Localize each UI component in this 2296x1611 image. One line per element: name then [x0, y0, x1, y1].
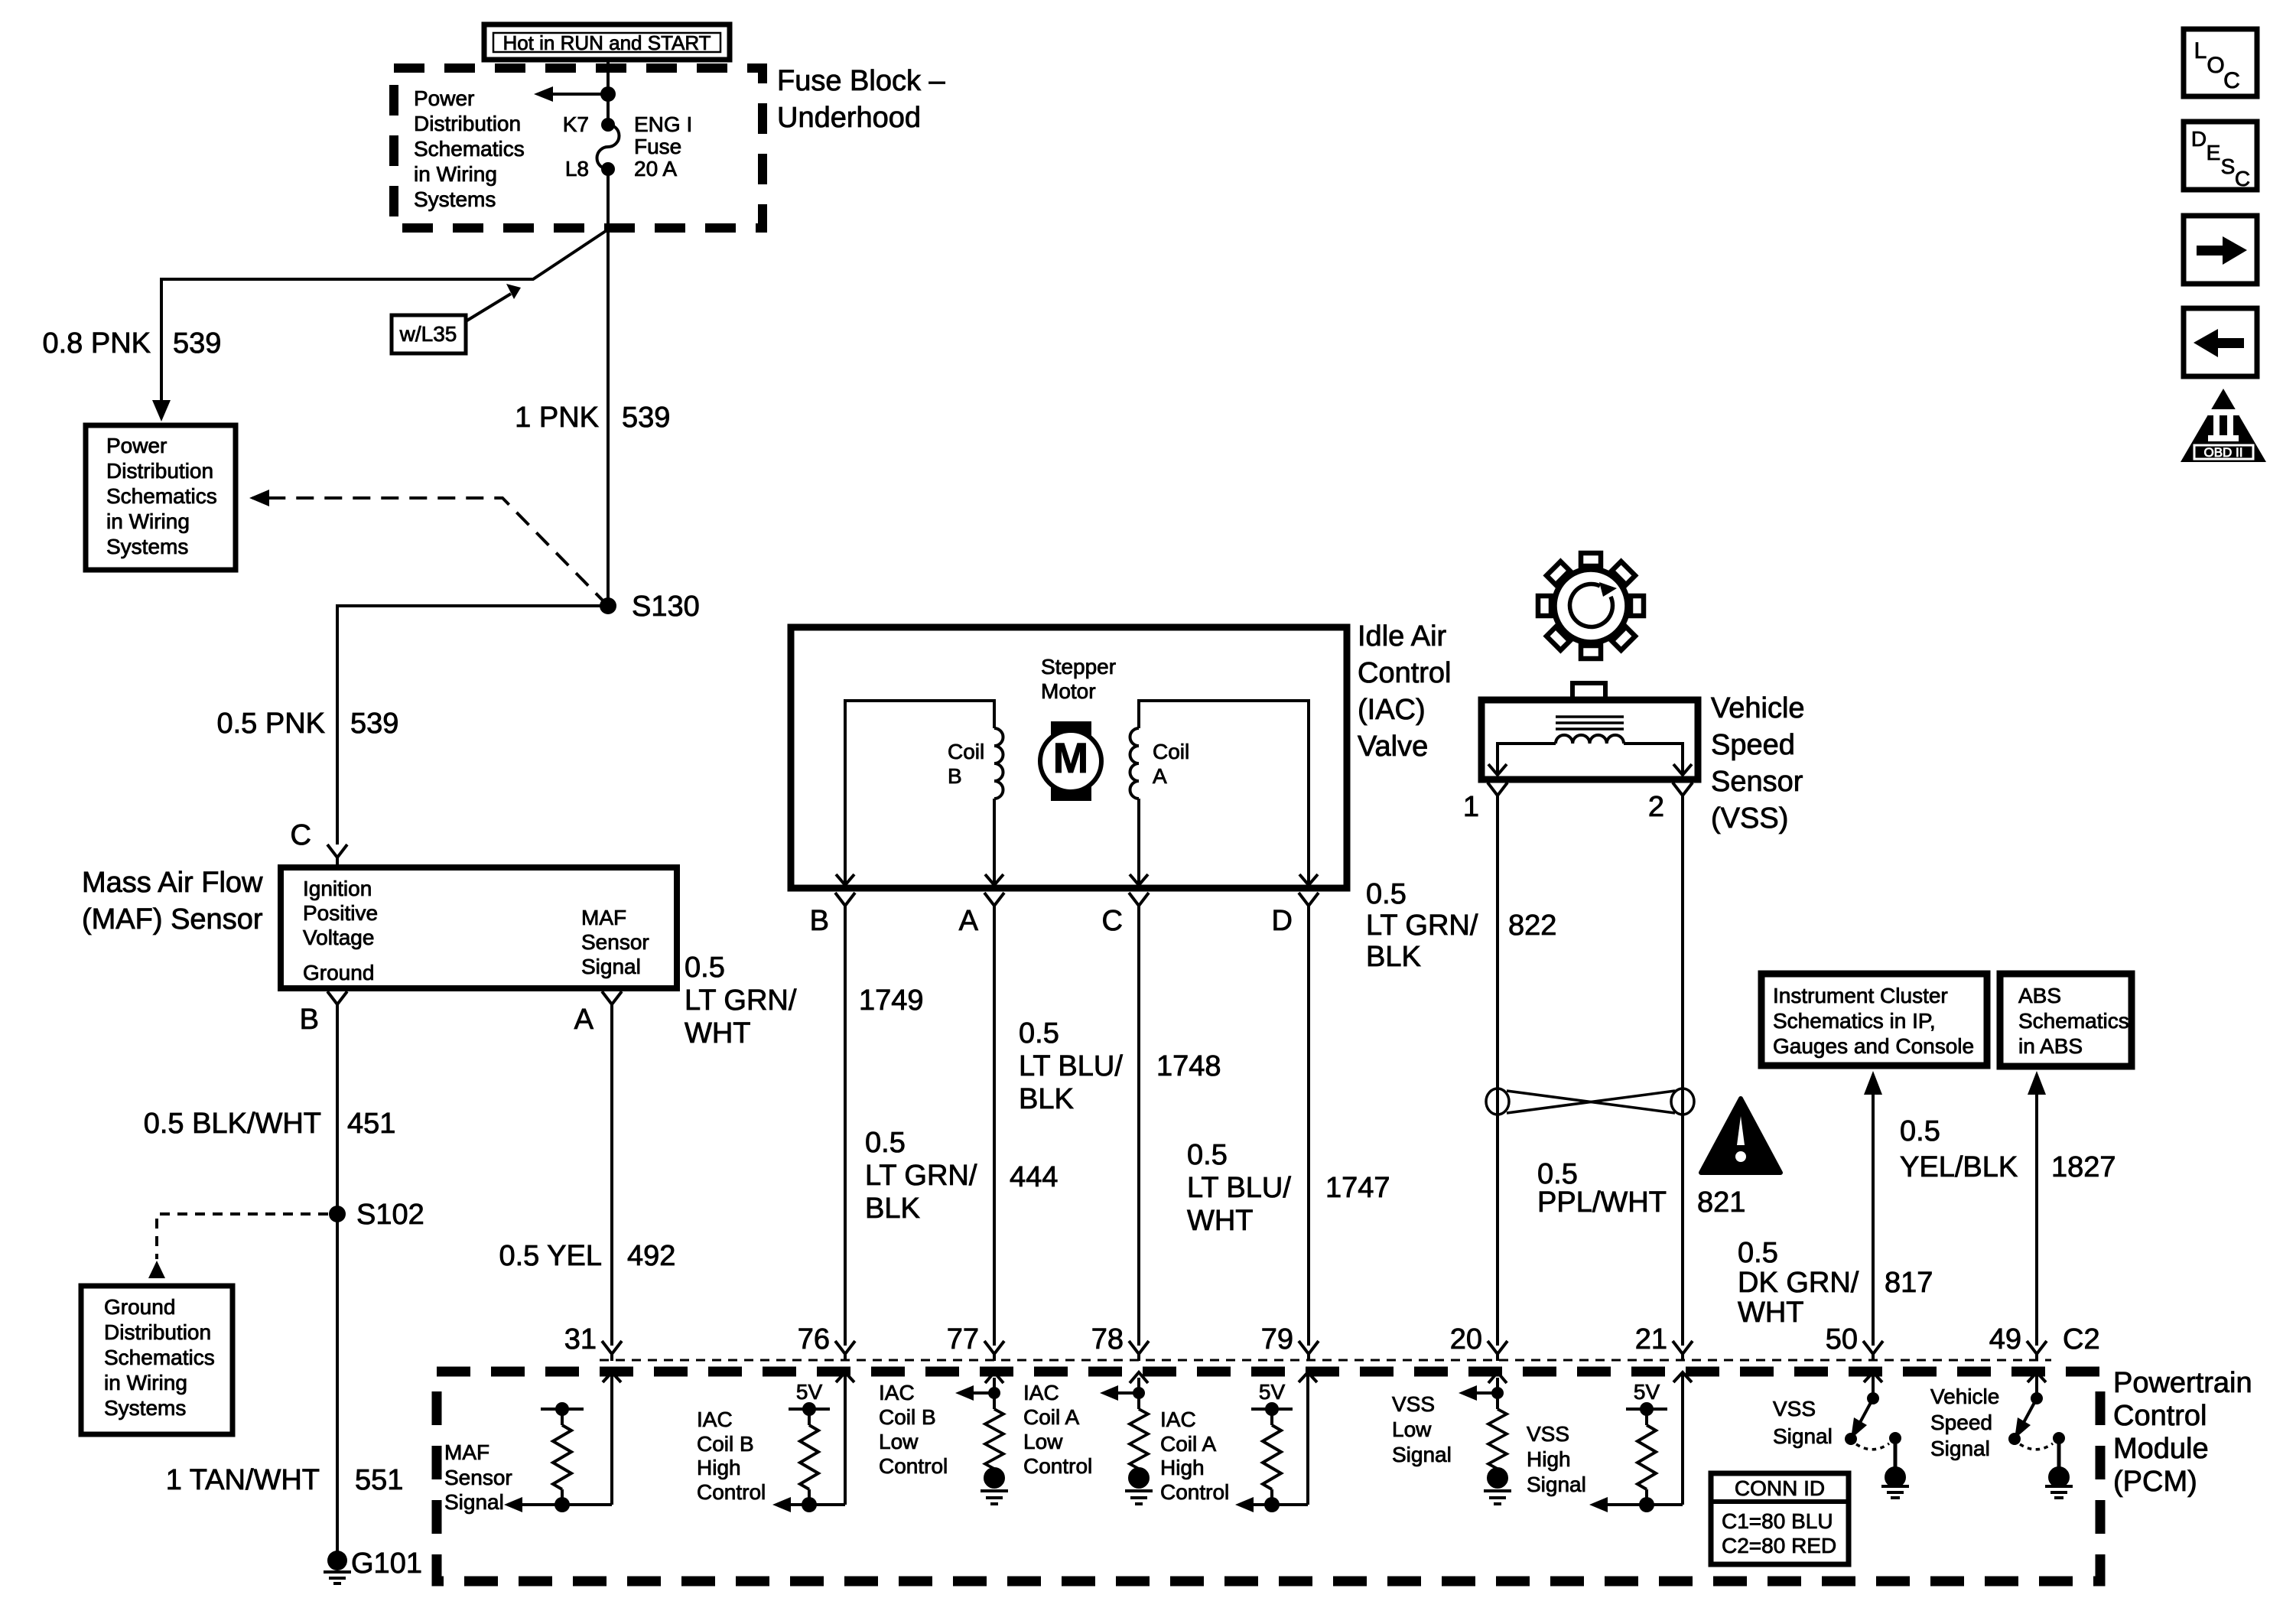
- PCM pin 50 internal: VSS signal switch: [1845, 1372, 1909, 1498]
- svg-text:Coil: Coil: [948, 740, 984, 763]
- svg-text:Coil B: Coil B: [697, 1432, 754, 1456]
- svg-text:76: 76: [798, 1323, 830, 1356]
- svg-text:C: C: [2223, 68, 2240, 93]
- icon: LOC box: [2184, 29, 2257, 96]
- svg-text:Sensor: Sensor: [581, 930, 649, 954]
- svg-text:0.5: 0.5: [685, 952, 725, 984]
- svg-text:1747: 1747: [1325, 1172, 1390, 1204]
- svg-text:IAC: IAC: [697, 1408, 733, 1431]
- svg-text:0.5 BLK/WHT: 0.5 BLK/WHT: [144, 1108, 321, 1140]
- label: VSS Low Signal: [1392, 1392, 1452, 1466]
- svg-text:High: High: [697, 1456, 741, 1479]
- PCM connector pin 78: [1091, 1323, 1149, 1361]
- svg-text:551: 551: [355, 1464, 403, 1496]
- svg-text:S: S: [2221, 155, 2236, 178]
- svg-text:Signal: Signal: [1527, 1473, 1586, 1496]
- svg-text:(IAC): (IAC): [1358, 694, 1426, 726]
- svg-text:Low: Low: [1023, 1430, 1063, 1453]
- wire: IAC A to PCM 77: [993, 913, 996, 1346]
- warning triangle: [1701, 1098, 1781, 1173]
- svg-text:MAF: MAF: [581, 906, 626, 929]
- svg-text:in Wiring: in Wiring: [106, 509, 190, 533]
- svg-text:0.8 PNK: 0.8 PNK: [42, 327, 151, 360]
- svg-text:A: A: [1153, 764, 1167, 788]
- PCM pin 20 internal: VSS low signal (to ground): [1459, 1372, 1511, 1504]
- svg-text:CONN ID: CONN ID: [1735, 1476, 1825, 1500]
- PCM dashed box: [437, 1372, 2100, 1581]
- label: IAC Coil B High Control: [697, 1408, 766, 1504]
- PCM connector pin 77: [947, 1323, 1004, 1361]
- ground distribution schematics box: [81, 1286, 233, 1434]
- label: 0.5 LT BLU/BLK 1748: [1019, 1017, 1221, 1115]
- svg-text:821: 821: [1697, 1186, 1745, 1219]
- svg-text:0.5: 0.5: [1366, 878, 1407, 910]
- svg-text:Power: Power: [106, 434, 167, 457]
- svg-text:Schematics in IP,: Schematics in IP,: [1773, 1009, 1936, 1033]
- IAC coil A winding and wires: [1130, 701, 1318, 885]
- svg-text:C: C: [1102, 905, 1123, 937]
- svg-text:Stepper: Stepper: [1041, 655, 1116, 679]
- svg-text:31: 31: [564, 1323, 597, 1356]
- PCM connector pin 20: [1450, 1323, 1507, 1361]
- svg-text:BLK: BLK: [865, 1193, 920, 1225]
- VSS core lines: [1556, 717, 1624, 729]
- wire: fuse output down to S130: [607, 169, 610, 606]
- fuse block dashed box: [394, 68, 763, 228]
- svg-text:D: D: [1272, 905, 1293, 937]
- label: 0.5 PNK 539: [216, 708, 398, 740]
- svg-text:LT BLU/: LT BLU/: [1187, 1172, 1291, 1204]
- svg-text:822: 822: [1508, 910, 1556, 942]
- MAF sensor box: [281, 867, 677, 988]
- svg-text:C2: C2: [2063, 1323, 2100, 1356]
- svg-text:Coil: Coil: [1153, 740, 1189, 763]
- svg-text:5V: 5V: [796, 1380, 823, 1404]
- wire: IAC C to PCM 78: [1137, 913, 1140, 1346]
- label: 0.5 LT GRN/WHT 1749: [685, 952, 924, 1050]
- svg-text:0.5: 0.5: [1019, 1017, 1059, 1050]
- connector pin A of MAF sensor: [602, 991, 622, 1011]
- fuse ENG I 20 A (pins K7 / L8): [597, 118, 620, 176]
- svg-text:Voltage: Voltage: [303, 926, 374, 949]
- stepper motor M symbol: [1040, 721, 1101, 801]
- label: 0.5 LT GRN/BLK 444: [865, 1127, 1058, 1225]
- icon: DESC box: [2184, 122, 2257, 190]
- svg-text:Mass Air Flow: Mass Air Flow: [82, 867, 263, 899]
- PCM connector pin 79: [1261, 1323, 1319, 1361]
- svg-text:ENG I: ENG I: [634, 112, 692, 136]
- svg-text:K7: K7: [563, 112, 589, 136]
- svg-text:A: A: [574, 1004, 594, 1036]
- label: Stepper Motor: [1041, 655, 1116, 703]
- PCM pin 79 internal: IAC coil A high control (5V pullup): [1235, 1372, 1317, 1512]
- reference box "Hot in RUN and START": [484, 24, 730, 60]
- wire: hot feed vertical from Hot box to fuse: [607, 60, 610, 125]
- PCM pin 21 internal: VSS high signal (5V pullup): [1589, 1372, 1692, 1512]
- svg-text:Powertrain: Powertrain: [2113, 1367, 2252, 1399]
- svg-text:C2=80 RED: C2=80 RED: [1722, 1534, 1836, 1557]
- svg-text:LT GRN/: LT GRN/: [865, 1160, 977, 1192]
- svg-text:Systems: Systems: [104, 1396, 186, 1420]
- junction dot on hot feed: [600, 86, 616, 102]
- svg-text:0.5 YEL: 0.5 YEL: [499, 1240, 602, 1272]
- PCM connector pin 76: [798, 1323, 855, 1361]
- svg-text:Distribution: Distribution: [414, 112, 521, 135]
- svg-text:O: O: [2207, 53, 2224, 78]
- svg-text:Schematics: Schematics: [2018, 1009, 2129, 1033]
- svg-text:WHT: WHT: [1187, 1205, 1254, 1237]
- svg-text:YEL/BLK: YEL/BLK: [1900, 1151, 2018, 1183]
- svg-text:WHT: WHT: [685, 1017, 751, 1050]
- svg-text:S102: S102: [356, 1199, 424, 1231]
- PCM connector pin 31: [564, 1323, 622, 1361]
- svg-text:WHT: WHT: [1738, 1297, 1804, 1329]
- splice S130: [600, 597, 616, 614]
- svg-text:B: B: [948, 764, 962, 788]
- IAC connector pin A: [959, 893, 1004, 937]
- wire: VSS 1 to PCM 20: [1496, 802, 1499, 1346]
- label: 0.5 YEL 492: [499, 1240, 675, 1272]
- svg-text:Distribution: Distribution: [104, 1320, 211, 1344]
- PCM connector face dashed line: [600, 1359, 2051, 1362]
- svg-text:Systems: Systems: [414, 187, 496, 211]
- wire: VSS 2 to PCM 21: [1681, 802, 1684, 1346]
- PCM connector pin 21: [1635, 1323, 1693, 1361]
- label: Mass Air Flow (MAF) Sensor: [82, 867, 263, 936]
- svg-text:Low: Low: [1392, 1417, 1432, 1441]
- svg-text:C: C: [2235, 167, 2250, 190]
- VSS pickup coil: [1556, 735, 1624, 744]
- svg-text:50: 50: [1826, 1323, 1858, 1356]
- svg-text:Speed: Speed: [1930, 1411, 1992, 1434]
- svg-text:Schematics: Schematics: [414, 137, 525, 161]
- icon: right arrow box: [2184, 216, 2257, 284]
- svg-text:539: 539: [350, 708, 398, 740]
- PCM pin 31 internal: MAF sensor signal input: [504, 1372, 621, 1512]
- label: VSS High Signal: [1527, 1422, 1586, 1496]
- power distribution schematics box (left): [86, 425, 236, 570]
- svg-text:0.5: 0.5: [1738, 1237, 1778, 1269]
- svg-text:BLK: BLK: [1019, 1083, 1074, 1115]
- svg-text:B: B: [810, 905, 829, 937]
- label: 1 PNK 539: [515, 402, 670, 434]
- PCM pin 77 internal: IAC coil B low control (driver to ground): [955, 1372, 1008, 1504]
- svg-text:BLK: BLK: [1366, 941, 1421, 973]
- svg-text:Signal: Signal: [1930, 1437, 1990, 1460]
- VSS sensor box: [1481, 683, 1698, 779]
- svg-text:C: C: [291, 819, 311, 851]
- label: Vehicle Speed Sensor (VSS): [1711, 692, 1805, 835]
- connector pin B of MAF sensor: [327, 991, 347, 1011]
- connector pin C of MAF sensor: [327, 845, 347, 864]
- svg-text:B: B: [300, 1004, 319, 1036]
- IAC connector pin B: [810, 893, 855, 937]
- text: Power Distribution Schematics in Wiring Systems (inside fuse block): [414, 86, 525, 211]
- svg-text:Control: Control: [2113, 1400, 2207, 1432]
- svg-text:E: E: [2207, 141, 2221, 164]
- svg-text:IAC: IAC: [1160, 1408, 1196, 1431]
- label: Powertrain Control Module (PCM): [2113, 1367, 2252, 1498]
- svg-text:79: 79: [1261, 1323, 1293, 1356]
- svg-text:20: 20: [1450, 1323, 1482, 1356]
- instrument cluster reference box: [1761, 974, 1987, 1066]
- wire: PCM 49 up to ABS (vehicle speed signal): [2028, 1071, 2046, 1346]
- svg-text:Hot in RUN and START: Hot in RUN and START: [502, 31, 711, 54]
- svg-text:MAF: MAF: [444, 1440, 489, 1464]
- svg-text:1 TAN/WHT: 1 TAN/WHT: [166, 1464, 320, 1496]
- svg-text:w/L35: w/L35: [399, 322, 457, 346]
- svg-text:Fuse Block –: Fuse Block –: [777, 65, 946, 97]
- arrow: to power distribution schematics (left): [534, 86, 608, 102]
- icon: left arrow box: [2184, 308, 2257, 376]
- CONN ID table: [1711, 1473, 1849, 1564]
- MAF pin function labels: [303, 877, 649, 984]
- svg-text:Vehicle: Vehicle: [1711, 692, 1805, 724]
- svg-text:492: 492: [627, 1240, 675, 1272]
- svg-text:0.5: 0.5: [1537, 1158, 1578, 1190]
- svg-text:IAC: IAC: [1023, 1381, 1059, 1404]
- twisted pair symbol: [1486, 1089, 1694, 1115]
- wire: IAC B to PCM 76: [844, 913, 847, 1346]
- svg-text:Gauges and Console: Gauges and Console: [1773, 1034, 1974, 1058]
- IAC coil B winding and wires: [836, 701, 1003, 885]
- svg-text:1749: 1749: [859, 984, 924, 1017]
- VSS reluctor gear icon: [1538, 553, 1644, 659]
- svg-text:VSS: VSS: [1773, 1397, 1816, 1421]
- svg-text:Systems: Systems: [106, 535, 188, 558]
- svg-text:Underhood: Underhood: [777, 102, 921, 134]
- svg-text:Low: Low: [879, 1430, 919, 1453]
- wire: PCM 50 up to instrument cluster (VSS signal): [1864, 1071, 1882, 1346]
- svg-text:Sensor: Sensor: [444, 1466, 512, 1489]
- svg-text:IAC: IAC: [879, 1381, 915, 1404]
- PCM pin 49 internal: vehicle speed signal switch: [2008, 1372, 2073, 1498]
- svg-text:Schematics: Schematics: [104, 1346, 215, 1369]
- svg-text:High: High: [1527, 1447, 1571, 1471]
- svg-text:Coil A: Coil A: [1023, 1405, 1079, 1429]
- label: 0.5 YEL/BLK 1827: [1900, 1115, 2116, 1183]
- svg-text:LT GRN/: LT GRN/: [1366, 910, 1478, 942]
- label: 0.5 BLK/WHT 451: [144, 1108, 396, 1140]
- svg-text:Control: Control: [879, 1454, 948, 1478]
- svg-text:LT BLU/: LT BLU/: [1019, 1050, 1123, 1082]
- PCM connector pin 50: [1826, 1323, 1883, 1361]
- svg-text:Motor: Motor: [1041, 679, 1096, 703]
- ABS reference box: [2000, 974, 2132, 1066]
- svg-text:Power: Power: [414, 86, 474, 110]
- svg-text:DK GRN/: DK GRN/: [1738, 1267, 1859, 1299]
- svg-text:OBD II: OBD II: [2203, 445, 2242, 460]
- svg-text:D: D: [2191, 127, 2207, 151]
- svg-text:G101: G101: [351, 1548, 422, 1580]
- PCM pin 78 internal: IAC coil A low control (driver to ground): [1100, 1372, 1153, 1504]
- svg-text:Speed: Speed: [1711, 729, 1795, 761]
- dashed arrow from S130 to power distribution box: [252, 498, 608, 606]
- label: 0.8 PNK 539: [42, 327, 221, 360]
- svg-text:49: 49: [1989, 1323, 2021, 1356]
- wire: MAF A signal wire down to PCM pin 31: [610, 1011, 613, 1346]
- wire: S130 to MAF pin C: [337, 606, 608, 845]
- ground G101: [324, 1551, 351, 1583]
- svg-text:0.5: 0.5: [865, 1127, 906, 1159]
- svg-text:20 A: 20 A: [634, 157, 677, 181]
- label: IAC Coil A High Control: [1160, 1408, 1229, 1504]
- svg-text:1827: 1827: [2051, 1151, 2116, 1183]
- label: IAC Coil A Low Control: [1023, 1381, 1092, 1478]
- svg-text:LT GRN/: LT GRN/: [685, 984, 797, 1017]
- svg-text:Module: Module: [2113, 1433, 2209, 1465]
- label: Fuse Block - Underhood: [777, 65, 946, 134]
- svg-text:Control: Control: [1023, 1454, 1092, 1478]
- PCM pin 76 internal: IAC coil B high control (5V pullup): [772, 1372, 854, 1512]
- svg-text:Control: Control: [697, 1480, 766, 1504]
- IAC connector pin C: [1102, 893, 1149, 937]
- label: 0.5 LT GRN/BLK 822: [1366, 878, 1556, 973]
- svg-text:M: M: [1053, 734, 1089, 782]
- svg-text:Schematics: Schematics: [106, 484, 217, 508]
- svg-text:Signal: Signal: [444, 1490, 504, 1514]
- wire: MAF B ground wire down to G101: [336, 1011, 339, 1551]
- svg-text:0.5 PNK: 0.5 PNK: [216, 708, 325, 740]
- svg-text:Positive: Positive: [303, 901, 378, 925]
- svg-text:(VSS): (VSS): [1711, 802, 1788, 835]
- svg-text:in Wiring: in Wiring: [414, 162, 497, 186]
- VSS connector pins 1 and 2: [1488, 783, 1507, 802]
- svg-text:539: 539: [622, 402, 670, 434]
- svg-text:in Wiring: in Wiring: [104, 1371, 187, 1395]
- svg-text:1 PNK: 1 PNK: [515, 402, 599, 434]
- svg-text:Idle Air: Idle Air: [1358, 620, 1447, 653]
- svg-text:Vehicle: Vehicle: [1930, 1385, 1999, 1408]
- dashed branch to ground distribution box with arrow: [157, 1214, 328, 1259]
- svg-text:VSS: VSS: [1392, 1392, 1435, 1416]
- svg-text:(PCM): (PCM): [2113, 1466, 2197, 1498]
- svg-text:5V: 5V: [1259, 1380, 1286, 1404]
- svg-text:5V: 5V: [1634, 1380, 1660, 1404]
- svg-text:Coil B: Coil B: [879, 1405, 936, 1429]
- svg-text:Distribution: Distribution: [106, 459, 213, 483]
- svg-text:Signal: Signal: [581, 955, 641, 978]
- svg-text:78: 78: [1091, 1323, 1124, 1356]
- svg-text:Valve: Valve: [1358, 731, 1428, 763]
- fuse value label ENG I Fuse 20 A: [634, 112, 692, 181]
- wire: IAC D to PCM 79: [1307, 913, 1310, 1346]
- svg-text:21: 21: [1635, 1323, 1667, 1356]
- svg-text:Ground: Ground: [104, 1295, 175, 1319]
- label: 1 TAN/WHT 551: [166, 1464, 404, 1496]
- label: IAC Coil B Low Control: [879, 1381, 948, 1478]
- reference tag w/L35 with arrow: [392, 284, 521, 353]
- label: MAF Sensor Signal: [444, 1440, 512, 1514]
- label: Coil A: [1153, 740, 1189, 788]
- svg-text:Coil A: Coil A: [1160, 1432, 1216, 1456]
- icon: OBD II triangle: [2181, 389, 2266, 462]
- label: Coil B: [948, 740, 984, 788]
- svg-text:Fuse: Fuse: [634, 135, 681, 158]
- label: Vehicle Speed Signal: [1930, 1385, 1999, 1460]
- svg-text:ABS: ABS: [2018, 984, 2061, 1007]
- IAC valve box: [791, 627, 1347, 888]
- svg-text:Instrument Cluster: Instrument Cluster: [1773, 984, 1948, 1007]
- svg-text:S130: S130: [632, 591, 700, 623]
- svg-text:A: A: [959, 905, 979, 937]
- svg-text:0.5: 0.5: [1900, 1115, 1940, 1147]
- svg-text:C1=80 BLU: C1=80 BLU: [1722, 1509, 1833, 1533]
- svg-text:L8: L8: [565, 157, 589, 181]
- svg-text:77: 77: [947, 1323, 979, 1356]
- label: 0.5 PPL/WHT 821: [1537, 1158, 1745, 1219]
- svg-text:Signal: Signal: [1392, 1443, 1452, 1466]
- svg-text:Sensor: Sensor: [1711, 766, 1803, 798]
- svg-text:Ignition: Ignition: [303, 877, 372, 900]
- label: Idle Air Control (IAC) Valve: [1358, 620, 1452, 763]
- svg-text:in ABS: in ABS: [2018, 1034, 2083, 1058]
- splice S102: [329, 1206, 346, 1222]
- svg-text:Ground: Ground: [303, 961, 374, 984]
- svg-text:1: 1: [1463, 791, 1479, 823]
- label: 0.5 LT BLU/WHT 1747: [1187, 1139, 1390, 1237]
- svg-text:1748: 1748: [1156, 1050, 1221, 1082]
- label: VSS Signal: [1773, 1397, 1833, 1448]
- svg-text:451: 451: [347, 1108, 395, 1140]
- svg-text:2: 2: [1648, 791, 1664, 823]
- svg-text:High: High: [1160, 1456, 1205, 1479]
- svg-text:L: L: [2194, 38, 2207, 63]
- wire: 0.8 PNK branch (diagonal + horizontal + drop arrow): [161, 229, 608, 410]
- svg-text:444: 444: [1010, 1161, 1058, 1193]
- svg-text:539: 539: [173, 327, 221, 360]
- svg-text:817: 817: [1885, 1267, 1933, 1299]
- PCM connector pin 49: [1989, 1323, 2047, 1361]
- svg-text:(MAF) Sensor: (MAF) Sensor: [82, 903, 263, 936]
- svg-text:Signal: Signal: [1773, 1424, 1833, 1448]
- svg-text:Control: Control: [1358, 657, 1452, 689]
- svg-text:0.5: 0.5: [1187, 1139, 1228, 1171]
- IAC connector pin D: [1272, 893, 1319, 937]
- svg-text:VSS: VSS: [1527, 1422, 1569, 1446]
- svg-text:Control: Control: [1160, 1480, 1229, 1504]
- label: 0.5 DK GRN/WHT 817: [1738, 1237, 1933, 1329]
- svg-text:PPL/WHT: PPL/WHT: [1537, 1186, 1667, 1219]
